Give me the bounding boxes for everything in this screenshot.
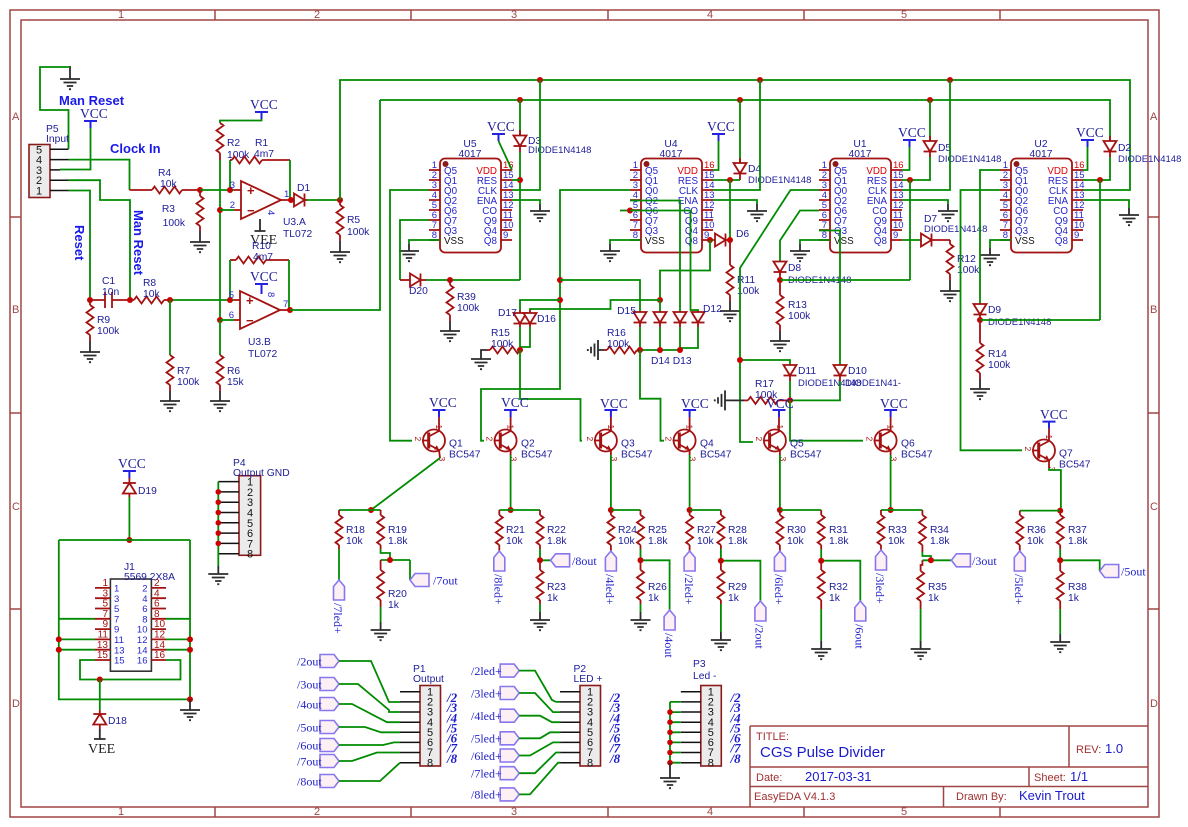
wire diode bottom bus (640, 327, 698, 350)
wire R4 to opamp pin3 (200, 189, 234, 191)
wire R1 right to output (289, 160, 291, 200)
svg-text:R9: R9 (97, 315, 110, 326)
svg-text:/6out: /6out (297, 739, 322, 753)
resistor R39 (447, 280, 481, 321)
svg-text:Q5: Q5 (790, 439, 804, 450)
flag /2out feeding P1 (297, 655, 400, 703)
svg-text:8: 8 (265, 292, 276, 297)
svg-text:100k: 100k (177, 377, 200, 388)
wire R28 to out node (721, 549, 761, 601)
resistor R10 (230, 241, 289, 264)
svg-text:2: 2 (230, 200, 235, 211)
svg-text:1k: 1k (829, 593, 841, 604)
node junction R39 top (447, 277, 453, 283)
svg-text:EasyEDA V4.1.3: EasyEDA V4.1.3 (754, 791, 835, 803)
svg-text:15: 15 (114, 656, 125, 667)
resistor R14 (977, 320, 1012, 379)
ground U2 VSS (980, 248, 1000, 265)
svg-text:R15: R15 (491, 328, 510, 339)
node junction bus D14 (657, 347, 663, 353)
ground U2 ENA (1119, 208, 1139, 225)
svg-text:DIODE1N4148: DIODE1N4148 (1118, 154, 1181, 165)
node junction D14 top (657, 297, 663, 303)
svg-text:100k: 100k (347, 227, 370, 238)
power flag VCC (P5) (80, 106, 108, 128)
wire Q3 emitter (610, 450, 612, 510)
node junction Q7 emitter bar (1057, 508, 1063, 514)
svg-text:R21: R21 (506, 525, 525, 536)
node junction D18 tap (97, 677, 103, 683)
svg-text:100k: 100k (491, 339, 514, 350)
svg-text:/2led+: /2led+ (682, 574, 696, 605)
transistor Q5 BC547 (754, 425, 822, 462)
svg-text:Kevin Trout: Kevin Trout (1019, 788, 1085, 803)
svg-text:/5out: /5out (1121, 565, 1146, 579)
flag /3out (951, 554, 997, 568)
svg-text:+: + (246, 293, 254, 308)
svg-text:4017: 4017 (660, 149, 683, 160)
svg-text:VCC: VCC (1076, 125, 1104, 140)
svg-text:Sheet:: Sheet: (1034, 772, 1066, 784)
svg-text:2: 2 (314, 9, 320, 21)
title block (750, 726, 1148, 807)
wire R2 node down to R6 (219, 320, 221, 355)
node junction R28/R29 (718, 558, 724, 564)
connector P4 (218, 458, 289, 561)
svg-text:/2led+: /2led+ (471, 664, 502, 678)
resistor R33 (878, 510, 908, 550)
ground R26 (631, 604, 651, 630)
connector P3 (681, 659, 722, 769)
svg-text:/8out: /8out (572, 554, 597, 568)
svg-text:2: 2 (314, 806, 320, 818)
wire branch to D17 (520, 300, 560, 310)
wire P5 pin4 clock in (69, 160, 130, 190)
node junction P4 pin7 (216, 541, 222, 547)
transistor Q1 BC547 (413, 425, 481, 462)
svg-text:TL072: TL072 (248, 349, 277, 360)
ground U1 VSS (790, 244, 810, 261)
ground P3 (660, 763, 680, 789)
power flag VCC (Q4) (681, 396, 709, 431)
wire Q2 emitter (510, 450, 512, 510)
svg-text:A: A (12, 111, 20, 123)
svg-text:15: 15 (97, 650, 109, 661)
wire U4 Q8 to D6 (713, 239, 715, 241)
flag /6out (853, 601, 867, 649)
ground R38 (1050, 609, 1070, 652)
svg-text:R35: R35 (928, 582, 947, 593)
wire pin6 (220, 319, 234, 321)
svg-text:BC547: BC547 (449, 450, 481, 461)
svg-text:Q6: Q6 (901, 439, 915, 450)
svg-text:/6out: /6out (853, 624, 867, 649)
wire U1 Q6 to D8 (780, 211, 819, 262)
diode D16 (524, 310, 557, 327)
node junction J1 pin14 (187, 647, 193, 653)
resistor R30 (776, 510, 806, 551)
svg-text:DIODE1N4148: DIODE1N4148 (988, 317, 1051, 328)
svg-text:/7out: /7out (433, 574, 458, 588)
svg-text:R16: R16 (607, 328, 626, 339)
flag /2led+ feeding P2 (471, 664, 560, 702)
svg-text:R24: R24 (618, 525, 637, 536)
svg-text:16: 16 (154, 650, 166, 661)
node junction U5 RES (517, 177, 523, 183)
wire D8 node to U1 RES riser (780, 279, 910, 281)
flag /3out feeding P1 (297, 678, 400, 713)
node junction D8 cathode (777, 277, 783, 283)
flag /7led+ feeding P2 (471, 753, 560, 781)
svg-text:/5out: /5out (297, 721, 322, 735)
wire D20 to R39 node (426, 279, 520, 281)
wire down to R7 (169, 300, 171, 355)
node junction D11 tap (737, 357, 743, 363)
wire to /7out flag (409, 560, 411, 580)
diode D4 (734, 100, 812, 186)
svg-text:1.8k: 1.8k (547, 536, 567, 547)
wire R10 right to output (288, 260, 290, 310)
node junction R17 (787, 397, 793, 403)
ground U1 ENA (938, 204, 958, 221)
wire R17 node to Q6 base (790, 400, 863, 440)
svg-text:10n: 10n (102, 287, 119, 298)
svg-text:1.0: 1.0 (1105, 741, 1123, 756)
node junction R22/R23 (537, 557, 543, 563)
svg-text:R5: R5 (347, 215, 360, 226)
node junction pin5 feedback (227, 297, 233, 303)
wire U4 ENA to ground (713, 200, 757, 204)
svg-text:TL072: TL072 (283, 229, 312, 240)
wire ground to P5 pin5 (40, 67, 70, 149)
svg-text:/6led+: /6led+ (772, 574, 786, 605)
node junction bus1 U5 tap (537, 77, 543, 83)
svg-text:D18: D18 (108, 716, 127, 727)
svg-text:100k: 100k (607, 339, 630, 350)
svg-text:VCC: VCC (766, 396, 794, 411)
power flag VCC (U3.B) (250, 269, 278, 291)
connector P5 (29, 124, 69, 198)
op-amp U3.B (229, 290, 290, 360)
svg-text:R7: R7 (177, 366, 190, 377)
svg-text:R8: R8 (143, 278, 156, 289)
node junction bus1 U4 tap (757, 77, 763, 83)
node junction Q6 emitter bar (888, 507, 894, 513)
svg-text:R30: R30 (787, 525, 806, 536)
resistor R28 (717, 510, 748, 549)
transistor Q6 BC547 (865, 425, 933, 462)
resistor R34 (919, 510, 950, 552)
flag /4out (662, 610, 676, 658)
wire R22 to out node (540, 549, 551, 560)
wire Q2 divider bar (499, 509, 540, 511)
svg-text:VCC: VCC (707, 119, 735, 134)
node junction U3.A output (288, 197, 294, 203)
svg-text:R39: R39 (457, 292, 476, 303)
svg-text:1.8k: 1.8k (728, 536, 748, 547)
wire R19 to out node (381, 549, 410, 560)
svg-text:VCC: VCC (681, 396, 709, 411)
node junction R34/R35 (928, 557, 934, 563)
wire J1 outer loop (59, 540, 190, 699)
svg-text:VCC: VCC (118, 456, 146, 471)
node junction P3 pin4 (667, 719, 673, 725)
flag /5led+ feeding P2 (471, 732, 560, 746)
svg-text:/8led+: /8led+ (492, 574, 506, 605)
wire U4 Q6 continuation (630, 211, 698, 312)
node junction Q1 emitter bar (368, 507, 374, 513)
wire D1 to R5 node (307, 199, 340, 201)
ground R14 (970, 379, 990, 399)
net labels /2../8 at P2 (609, 690, 621, 766)
svg-text:1k: 1k (928, 593, 940, 604)
wire R8 to opamp pin5 (170, 299, 234, 301)
svg-text:D19: D19 (138, 486, 157, 497)
flag /6led+ feeding P2 (471, 742, 560, 763)
svg-text:R4: R4 (158, 168, 171, 179)
svg-text:R18: R18 (346, 525, 365, 536)
svg-text:R29: R29 (728, 582, 747, 593)
svg-text:B: B (12, 304, 19, 316)
node junction R25/R26 (638, 557, 644, 563)
svg-text:/7led+: /7led+ (331, 603, 345, 634)
wire R18 to led flag (338, 549, 340, 580)
wire VCC to U2 pin16 (1083, 147, 1088, 170)
resistor R27 (686, 510, 716, 551)
ground R39 (440, 321, 460, 341)
diode D1 (291, 183, 310, 207)
svg-text:/4led+: /4led+ (603, 574, 617, 605)
wire J1 pin11 (59, 638, 95, 640)
wire U4 Q6 to D12 (620, 210, 630, 212)
resistor R26 (637, 560, 667, 604)
svg-text:CGS Pulse Divider: CGS Pulse Divider (760, 744, 885, 761)
wire Q5 divider bar (780, 509, 821, 511)
diode D14 (654, 311, 667, 327)
resistor R8 (130, 278, 170, 304)
resistor R38 (1057, 560, 1087, 609)
svg-text:Q1: Q1 (449, 439, 463, 450)
node junction R8/R7 (167, 297, 173, 303)
svg-text:Clock In: Clock In (110, 141, 161, 156)
flag /8led+ (492, 551, 506, 605)
svg-text:R37: R37 (1068, 525, 1087, 536)
flag /5out feeding P1 (297, 721, 400, 735)
flag /7out (410, 574, 458, 588)
capacitor C1 (90, 276, 130, 308)
power flag VCC (Q3) (600, 396, 628, 431)
wire Q4 emitter (689, 450, 691, 510)
node junction pin6 (217, 317, 223, 323)
svg-text:VCC: VCC (250, 269, 278, 284)
svg-text:10k: 10k (506, 536, 523, 547)
wire Q3 divider bar (611, 509, 641, 511)
ground R35 (911, 609, 931, 659)
resistor R4 (130, 168, 201, 194)
svg-text:VEE: VEE (88, 742, 115, 757)
ground R29 (711, 604, 731, 650)
svg-text:BC547: BC547 (790, 450, 822, 461)
svg-text:5: 5 (901, 9, 907, 21)
wire D14 top to D16 (530, 300, 660, 310)
resistor R35 (917, 560, 947, 609)
svg-text:Output GND: Output GND (233, 468, 290, 479)
diode D17 (498, 308, 527, 327)
svg-text:3: 3 (230, 180, 235, 191)
svg-text:1k: 1k (1068, 593, 1080, 604)
svg-text:Man Reset: Man Reset (131, 210, 146, 276)
svg-text:1k: 1k (388, 600, 400, 611)
node junction J1 top bus (126, 537, 132, 543)
node junction C1 left (87, 297, 93, 303)
resistor R19 (377, 510, 408, 549)
ground R17 rotated (715, 390, 744, 410)
wire P5 pin2 man reset (69, 180, 131, 300)
wire Q5 emitter (779, 450, 781, 510)
diode D3 (514, 100, 592, 156)
wire VCC to U4 pin16 (713, 141, 719, 170)
node junction D9 cathode (977, 317, 983, 323)
node junction U4 Q6 (627, 208, 633, 214)
svg-text:5569 2X8A: 5569 2X8A (124, 572, 175, 583)
svg-text:1/1: 1/1 (1070, 769, 1088, 784)
flag /4out feeding P1 (297, 698, 400, 723)
svg-text:4017: 4017 (849, 149, 872, 160)
svg-text:D: D (1150, 698, 1158, 710)
svg-text:/3out: /3out (297, 678, 322, 692)
diode D8 (774, 262, 852, 287)
node junction U3.B output (287, 307, 293, 313)
svg-text:C: C (12, 501, 20, 513)
ground R3 (190, 231, 210, 252)
diode D2 (1104, 136, 1182, 165)
node junction R4/R3 (197, 187, 203, 193)
svg-text:/5led+: /5led+ (471, 732, 502, 746)
svg-text:BC547: BC547 (621, 450, 653, 461)
svg-text:D15: D15 (617, 306, 636, 317)
node junction D6 cathode (727, 237, 733, 243)
svg-text:R6: R6 (227, 366, 240, 377)
wire J1 pin8 (166, 618, 190, 620)
ground R13 (770, 331, 790, 351)
node junction pin3 feedback (227, 187, 233, 193)
svg-text:1.8k: 1.8k (930, 536, 950, 547)
svg-text:4m7: 4m7 (254, 149, 274, 160)
svg-text:10k: 10k (888, 536, 905, 547)
flag /4led+ (603, 551, 617, 605)
svg-text:1.8k: 1.8k (388, 536, 408, 547)
connector J1 (95, 562, 175, 671)
flag /2out (753, 601, 767, 649)
diode D20 (400, 274, 428, 298)
wire reset bus (U3.B output) (380, 100, 1110, 140)
wire Q1 divider bar (339, 509, 381, 511)
svg-text:5: 5 (901, 806, 907, 818)
flag /8led+ feeding P2 (471, 763, 560, 802)
wire U1 Q0 to Q5 base (740, 190, 819, 442)
node junction P4 pin6 (216, 530, 222, 536)
svg-text:D10: D10 (848, 366, 867, 377)
wire U3.B output to bus2 riser (290, 100, 380, 310)
power flag VCC (U1) (898, 125, 926, 147)
wire R31 to out node (821, 549, 860, 601)
svg-text:/8led+: /8led+ (471, 788, 502, 802)
svg-text:4: 4 (265, 210, 276, 215)
node junction Q2 emitter bar (508, 507, 514, 513)
svg-text:D20: D20 (409, 286, 428, 297)
svg-text:D11: D11 (798, 366, 816, 377)
svg-text:D9: D9 (988, 305, 1001, 316)
svg-text:R28: R28 (728, 525, 747, 536)
transistor Q4 BC547 (664, 425, 732, 462)
wire P3 common bus (670, 702, 681, 763)
node junction bus2 D5 tap (927, 97, 933, 103)
svg-text:Drawn By:: Drawn By: (956, 791, 1007, 803)
frame row ticks right (1148, 217, 1159, 609)
svg-text:R36: R36 (1027, 525, 1046, 536)
power flag VCC (Q1) (429, 395, 457, 431)
wire Q1 emitter diagonal (371, 450, 440, 510)
flag /5led+ (1012, 551, 1026, 605)
wire R34 to out node (922, 552, 951, 560)
node junction P3 pin5 (667, 730, 673, 736)
ground P4 (208, 554, 228, 585)
transistor Q3 BC547 (585, 425, 653, 462)
transistor Q7 BC547 (1023, 435, 1091, 472)
node junction R37/R38 (1057, 557, 1063, 563)
svg-text:R20: R20 (388, 589, 407, 600)
svg-text:15k: 15k (227, 377, 244, 388)
svg-text:+: + (247, 183, 255, 198)
frame column ticks bottom (215, 807, 1000, 817)
flag /7out feeding P1 (297, 753, 400, 769)
svg-text:C: C (1150, 501, 1158, 513)
node junction R5 top (337, 197, 343, 203)
wire U4 Q0 staircase to D15 (481, 190, 630, 441)
ground R20 (371, 607, 391, 640)
diode D11 (784, 365, 862, 389)
svg-text:/5led+: /5led+ (1012, 574, 1026, 605)
wire Q8 branch down to D14/D16 (660, 240, 710, 300)
wire R1 feedback left (229, 160, 231, 190)
svg-text:4: 4 (707, 9, 713, 21)
wire D14 drop (659, 300, 661, 311)
node junction J1 pin12 (187, 636, 193, 642)
node junction P4 pin3 (216, 499, 222, 505)
resistor R16 (604, 328, 640, 354)
svg-text:R34: R34 (930, 525, 949, 536)
node junction R31/R32 (818, 558, 824, 564)
node junction P3 pin6 (667, 740, 673, 746)
node junction U1 RES (907, 177, 913, 183)
svg-text:10k: 10k (787, 536, 804, 547)
svg-text:/3led+: /3led+ (471, 687, 502, 701)
node junction P4 pin4 (216, 510, 222, 516)
ground R15 (471, 350, 491, 369)
flag /2led+ (682, 551, 696, 605)
ground U5 ENA (530, 204, 550, 221)
power flag VCC (Q7) (1040, 407, 1068, 441)
svg-text:3: 3 (511, 806, 517, 818)
wire D2 to U2 RES (1083, 157, 1110, 180)
wire J1 pin12 (166, 638, 190, 640)
svg-text:VCC: VCC (429, 395, 457, 410)
node junction bus1 U1 tap (947, 77, 953, 83)
node junction bus2 D4 tap (737, 97, 743, 103)
wire D4 to U4 RES (713, 179, 740, 181)
svg-text:100k: 100k (788, 311, 811, 322)
resistor R37 (1057, 511, 1089, 549)
